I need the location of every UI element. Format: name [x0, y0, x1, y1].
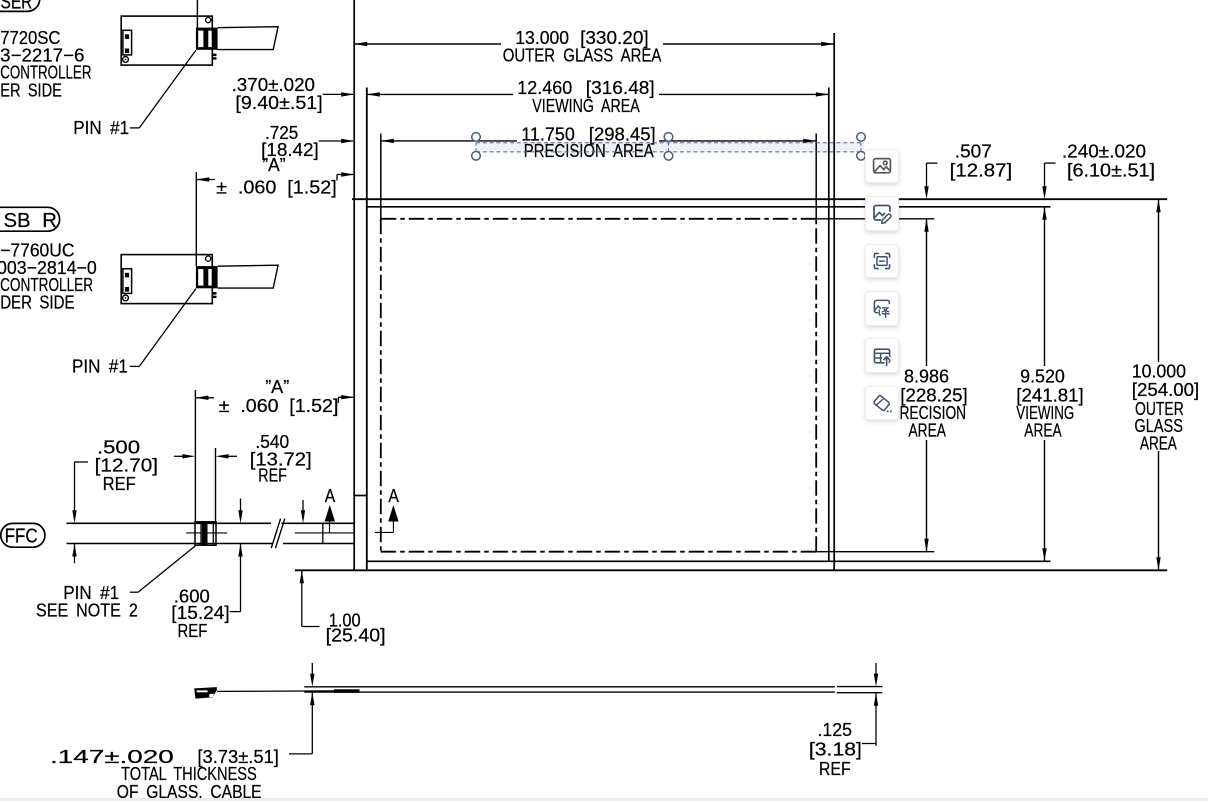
leader upper A dim to glass edge [336, 175, 338, 181]
board 2 cable [218, 265, 279, 288]
board 2 FFC connector block [196, 266, 218, 288]
side view glass bottom line [304, 691, 835, 693]
svg-text:.507: .507 [955, 141, 992, 162]
viewing area right edge [828, 88, 830, 562]
svg-text:”A”: ”A” [265, 376, 289, 397]
svg-text:AREA: AREA [1024, 419, 1062, 440]
PIN #1 leader (board 1) [130, 127, 140, 129]
selection dashed box left edge [475, 143, 477, 152]
leader .240 tick and line [1045, 162, 1056, 164]
selection dashed box middle edge [668, 143, 670, 152]
svg-text:DER SIDE: DER SIDE [0, 291, 74, 312]
selection handle 2 [664, 133, 673, 142]
controller board 1 outline [121, 16, 212, 65]
toolbar button: extract text [865, 244, 899, 278]
side view cable underlay [334, 689, 360, 693]
dimension 1.00 upper arrow [302, 500, 304, 510]
precision area right extension line (solid part) [815, 134, 817, 219]
leader .500 vertical with arrows [74, 462, 76, 512]
section line A-A mid segment [295, 532, 355, 534]
board 1 cable [218, 27, 279, 50]
leader .370 to glass edge [323, 93, 353, 95]
precision area right edge dash-dot [815, 219, 817, 552]
stadium label SB R [0, 207, 60, 231]
PIN #1 leader (FFC) [130, 591, 138, 593]
dimension line 13.000 right segment [663, 43, 834, 45]
precision area bottom extension (solid) [816, 551, 934, 553]
toolbar button: erase [865, 386, 899, 420]
FFC connector black bar [202, 522, 208, 545]
section marker A leader (right) [392, 522, 394, 533]
board 2 edge tab marks [212, 292, 217, 295]
svg-text:.240±.020: .240±.020 [1062, 141, 1146, 162]
svg-text:A: A [325, 485, 336, 506]
FFC connector mid line [186, 532, 227, 534]
svg-text:VIEWING AREA: VIEWING AREA [532, 95, 640, 116]
dimension line 13.000 left segment [354, 43, 501, 45]
board 1 left component rectangle [123, 30, 132, 55]
svg-text:PIN #1: PIN #1 [72, 355, 128, 376]
dimension .540 arrows [182, 454, 195, 458]
svg-text:”A”: ”A” [262, 154, 285, 175]
svg-text:PIN #1: PIN #1 [73, 117, 129, 138]
side view glass top line [304, 686, 835, 688]
svg-text:[6.10±.51]: [6.10±.51] [1067, 160, 1155, 181]
board 1 component pad upper [125, 34, 129, 39]
section marker A leader (left) [329, 522, 331, 533]
board 1 component pad lower [125, 49, 129, 54]
leader .507 tick and line [927, 162, 938, 164]
selection handle 3 [857, 133, 866, 142]
vertical extension line into connector board 1 [196, 0, 198, 28]
svg-text:9.520: 9.520 [1020, 366, 1065, 387]
side view cable line [217, 690, 335, 693]
selection highlight band [476, 143, 864, 153]
dimension .600 upper arrow [240, 499, 242, 511]
svg-text:± .060 [1.52]: ± .060 [1.52] [216, 176, 337, 197]
dimension .125 upper arrow [875, 663, 877, 675]
outer glass left edge / extension line [353, 0, 355, 570]
outer glass bottom edge with extensions [295, 569, 1167, 571]
dimension line 12.460 left segment [367, 93, 513, 95]
svg-text:ER SIDE: ER SIDE [0, 79, 62, 100]
svg-text:REF: REF [178, 620, 208, 641]
svg-text:.125: .125 [818, 719, 853, 740]
svg-text:[12.87]: [12.87] [950, 160, 1013, 181]
svg-text:A: A [388, 485, 399, 506]
svg-text:[25.40]: [25.40] [326, 624, 386, 645]
board 1 mounting hole bottom-left [123, 57, 129, 63]
viewing area left extension line [366, 88, 368, 571]
board 1 mounting hole top-right [206, 18, 211, 23]
leader lower A dim to glass edge [337, 397, 339, 403]
board 2 component pad lower [125, 287, 129, 292]
arrow at extension line (lower A dim) [195, 397, 214, 399]
dimension line 10.000 upper segment [1158, 199, 1160, 362]
toolbar button: export table [865, 338, 899, 372]
dimension .600 lower arrow and leader [240, 544, 242, 612]
selection dashed box top edge [476, 142, 864, 144]
selection handle 5 [664, 152, 673, 161]
toolbar button: view image [865, 149, 899, 183]
dimension line 12.460 right segment [659, 93, 829, 95]
svg-text:± .060 [1.52]: ± .060 [1.52] [219, 395, 339, 416]
svg-text:REF: REF [819, 758, 851, 779]
selection dashed box right edge [860, 143, 862, 152]
viewing area top edge with extension [366, 206, 1051, 208]
precision area top edge dash-dot [381, 218, 816, 220]
dimension 1.00 lower arrow and leader [301, 570, 303, 626]
svg-text:[3.18]: [3.18] [809, 739, 862, 760]
extension line .540 right [215, 448, 217, 523]
PIN #1 leader (board 2) [130, 365, 140, 367]
bottom window strip [0, 798, 1208, 801]
section marker A arrow (left) [325, 505, 335, 522]
dimension line 11.750 left segment [381, 140, 517, 142]
board 2 left component rectangle [123, 269, 132, 294]
dimension line 9.520 lower segment [1044, 440, 1046, 561]
FFC connector inner line right [212, 522, 214, 545]
left column bridge [354, 495, 367, 497]
board 2 component pad upper [125, 273, 129, 278]
svg-text:SB R: SB R [4, 209, 57, 232]
stadium label FFC [1, 523, 45, 547]
dimension .147 upper arrow [311, 663, 313, 675]
FFC cable break slashes [271, 519, 280, 548]
precision area top extension (solid) [816, 218, 934, 220]
FFC cable bottom edge [67, 543, 273, 545]
vertical extension line A-dim upper segment [195, 172, 197, 266]
viewing area bottom edge with extension [367, 560, 1051, 562]
side view end connector [194, 687, 217, 699]
FFC cable top edge [67, 522, 272, 524]
svg-text:AREA: AREA [1140, 432, 1177, 453]
selection handle 4 [472, 152, 481, 161]
board 1 FFC connector block [196, 28, 218, 50]
board 1 edge tab marks [212, 54, 217, 57]
svg-text:SER: SER [1, 0, 33, 14]
toolbar button: edit image [865, 196, 899, 230]
dimension line 9.520 upper segment [1044, 207, 1046, 366]
leader .500 tick [75, 461, 89, 463]
svg-text:PRECISION AREA: PRECISION AREA [524, 140, 654, 161]
svg-text:FFC: FFC [5, 525, 38, 547]
selection handle 6 [857, 152, 866, 161]
section marker A arrow (right) [388, 505, 398, 522]
leader .725 to glass edge [319, 140, 353, 142]
svg-text:[9.40±.51]: [9.40±.51] [235, 92, 322, 113]
dimension .147 lower line [311, 692, 313, 754]
svg-text:OUTER GLASS AREA: OUTER GLASS AREA [503, 45, 662, 66]
selection handle 1 [472, 133, 481, 142]
outer glass top edge with extension [352, 198, 1167, 200]
dimension line 10.000 lower segment [1158, 451, 1160, 570]
FFC connector outline [195, 522, 216, 545]
svg-text:REF: REF [258, 464, 287, 485]
precision area left extension line (solid part) [380, 134, 382, 219]
svg-text:8.986: 8.986 [904, 366, 949, 387]
precision area bottom edge dash-dot [381, 551, 816, 553]
stadium label SER (clipped) [0, 0, 40, 11]
outer glass right edge [833, 33, 835, 570]
board 2 mounting hole bottom-left [123, 295, 129, 301]
precision area left edge dash-dot [380, 219, 382, 552]
dimension line 11.750 right segment [659, 140, 816, 142]
board 2 mounting hole top-right [206, 256, 211, 261]
controller board 2 outline [121, 255, 212, 304]
dimension line 8.986 lower segment [926, 440, 928, 552]
svg-text:AREA: AREA [909, 419, 947, 440]
selection dashed box bottom edge [476, 151, 864, 153]
svg-text:SEE NOTE 2: SEE NOTE 2 [36, 599, 138, 620]
toolbar button: translate image [865, 291, 899, 325]
cable vertical at glass edge [322, 523, 324, 543]
arrow at extension line (upper A dim) [196, 179, 215, 181]
dimension .125 lower line [875, 693, 877, 746]
extension line for A dim lower [194, 390, 196, 523]
svg-text:[254.00]: [254.00] [1132, 379, 1200, 400]
dimension line 8.986 upper segment [926, 219, 928, 366]
svg-text:REF: REF [103, 473, 136, 494]
FFC connector inner line [200, 522, 202, 545]
